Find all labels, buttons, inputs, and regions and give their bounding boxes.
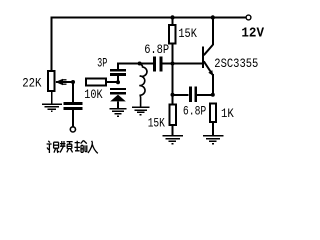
wire wiper node down to input capacitor [72,82,74,102]
transistor collector diagonal [204,45,213,56]
ground symbol below 1K [203,136,224,144]
transistor emitter diagonal with arrow [204,61,213,75]
resistor R 10K body [86,79,106,86]
capacitor video input coupling, bottom plate [64,107,83,110]
resistor R 1K body [210,104,216,122]
wire 10K to node A [106,81,118,83]
varactor diode D cathode bars [110,89,126,93]
node emitter junction dot [211,93,215,97]
svg-text:2SC3355: 2SC3355 [214,56,258,71]
label 3P [97,56,107,71]
label 15K bottom [148,115,165,130]
node rail junction dot at 15K [170,15,174,19]
svg-text:10K: 10K [84,87,102,102]
label 1K [221,106,234,121]
svg-text:3P: 3P [97,56,107,71]
svg-text:6.8P: 6.8P [144,42,169,57]
wire 1K to ground [212,122,214,135]
wire collector up to rail [212,18,214,46]
ground symbol below potentiometer [42,91,62,111]
wire 15K top to rail [172,18,174,26]
label 15K top [178,26,197,41]
transistor Q1 2SC3355 base bar [202,46,204,68]
wire capacitor to input terminal [72,110,74,127]
svg-text:1K: 1K [221,106,234,121]
terminal circle video input [70,127,75,132]
wire varactor to ground [117,101,119,108]
resistor R 15K bottom body [169,105,175,125]
label 10K [84,87,102,102]
svg-text:22K: 22K [22,75,41,90]
terminal circle 12V [246,15,251,20]
wire left vertical from rail to potentiometer [51,17,53,72]
svg-text:15K: 15K [178,26,197,41]
wire lower node to 15K bottom [172,95,174,105]
capacitor C 6.8P bottom plates [173,87,213,102]
label 6.8P top [144,42,169,57]
varactor diode D anode triangle [110,95,126,102]
label 22K [22,75,41,90]
svg-text:15K: 15K [148,115,165,130]
capacitor video input coupling, top plate [64,102,83,105]
svg-text:6.8P: 6.8P [183,104,207,119]
node rail junction dot at collector [211,15,215,19]
node base junction dot [171,62,175,66]
inductor L coil [139,64,147,108]
potentiometer RP 22K body [48,71,55,91]
wire base node up to 15K [172,44,174,64]
node inductor junction dot [138,62,142,66]
node A junction dot [116,80,120,84]
capacitor C 6.8P top coupling plates [141,56,202,71]
ground symbol below inductor [132,107,149,114]
label 6.8P bottom [183,104,207,119]
label 12V [241,25,264,41]
node lower base junction dot [171,93,175,97]
resistor R 15K top body [169,25,175,44]
wire top supply rail [51,17,247,19]
wiper arrow of potentiometer [55,79,73,85]
node wiper junction dot [71,80,75,84]
wire 15K bottom to ground [172,125,174,135]
label 2SC3355 [214,56,258,71]
wire base node down to lower node [172,64,174,95]
wire emitter down to emitter node [212,74,214,95]
svg-text:12V: 12V [241,25,264,41]
ground symbol below varactor [110,109,127,116]
capacitor C 3P plates [110,64,140,83]
label 视频输入 video input (drawn strokes) [47,140,98,153]
ground symbol below 15K [162,136,183,144]
